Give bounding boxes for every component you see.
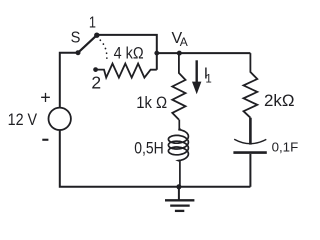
- svg-text:1: 1: [205, 74, 211, 86]
- svg-text:1: 1: [89, 15, 96, 32]
- svg-text:S: S: [71, 30, 81, 47]
- svg-text:0,5H: 0,5H: [134, 139, 164, 157]
- svg-text:+: +: [40, 88, 51, 108]
- svg-text:2kΩ: 2kΩ: [264, 91, 295, 110]
- svg-text:4 kΩ: 4 kΩ: [114, 44, 144, 62]
- svg-text:12 V: 12 V: [8, 111, 37, 129]
- svg-text:1k Ω: 1k Ω: [136, 94, 167, 112]
- svg-text:2: 2: [91, 72, 101, 92]
- svg-text:A: A: [180, 35, 188, 49]
- svg-text:0,1F: 0,1F: [272, 140, 299, 155]
